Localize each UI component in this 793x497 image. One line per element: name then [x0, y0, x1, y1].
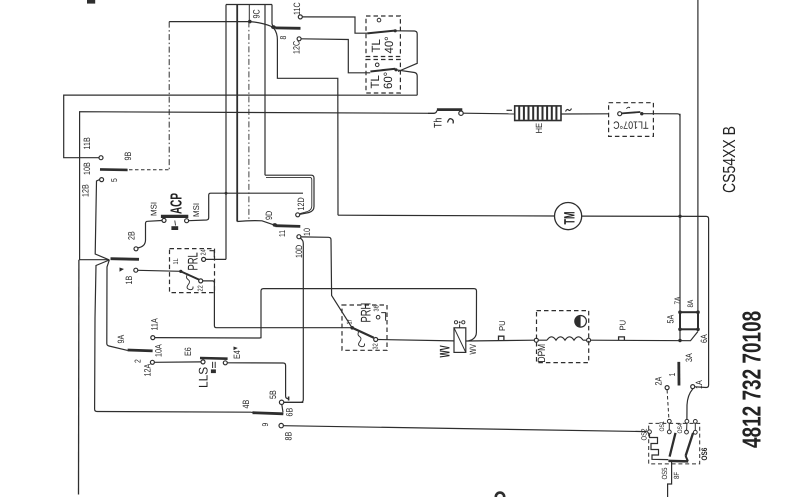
terminal 1B circle: [134, 268, 138, 272]
wire: 22 down and right to PRH net: [203, 281, 352, 328]
terminal 11A: [151, 336, 155, 340]
wire: 24 to neutral riser: [206, 258, 226, 260]
wire: 1A drop to OSS: [687, 389, 693, 419]
wire: TL40 output loops right and down into TL60 contact: [395, 31, 417, 72]
motor TM circle: [555, 203, 582, 230]
svg-text:60°: 60°: [381, 72, 395, 89]
water valve WV: [454, 321, 466, 353]
svg-text:12B: 12B: [81, 184, 91, 197]
switch 9A contact bar (cam 2): [128, 349, 153, 353]
wire: 11A right, up and across to water valve: [155, 289, 477, 341]
switch PRL blade and spring: [179, 270, 199, 290]
svg-text:6B: 6B: [285, 408, 295, 417]
terminal 11C: [298, 15, 302, 19]
svg-text:E4: E4: [232, 350, 242, 359]
terminal 12C: [297, 37, 301, 41]
svg-text:TM: TM: [561, 211, 578, 224]
wire: 12C to thermal cutout TL60: [301, 39, 370, 73]
wire: 9C common from block right edge: [272, 5, 275, 28]
svg-text:12A: 12A: [142, 363, 152, 376]
wire: left line down to bottom edge of sheet: [78, 260, 80, 495]
terminal 10D: [297, 235, 301, 239]
terminal 24: [202, 257, 206, 261]
wire: HE to thermal fuse TL107: [561, 113, 609, 115]
node: junction heater line / motor line: [678, 215, 681, 218]
wire: 8B to off-switch OSS: [283, 426, 646, 432]
mark: dark arc at bottom edge: [496, 493, 504, 497]
wire: 1B circle to PRL blade: [138, 270, 181, 271]
svg-text:3A: 3A: [684, 353, 694, 362]
switch 1B contact bar (cam 4): [111, 257, 140, 260]
svg-text:5: 5: [109, 178, 119, 182]
svg-text:OS6: OS6: [700, 447, 709, 460]
connector PU (pump line): [619, 337, 625, 340]
wire: line continues down from 1B bar to 4B corner: [95, 260, 251, 412]
terminal 12A: [150, 360, 154, 364]
svg-text:WV: WV: [468, 344, 478, 355]
svg-text:WV: WV: [436, 345, 452, 358]
svg-text:10B: 10B: [82, 162, 92, 175]
switch 4B/6B contact bar: [251, 412, 283, 414]
switch 9D contact bar (cam 11): [273, 223, 301, 227]
wire: PRH output to water valve WV: [378, 340, 454, 341]
mark: tilde after HE: [566, 109, 572, 112]
node: junction pump line / suppressor: [678, 339, 681, 342]
wire: LLS E4 right and down to 5B node: [227, 363, 288, 399]
wire: 2B up to ACP left terminal: [138, 221, 162, 248]
svg-text:12C: 12C: [292, 41, 302, 54]
wire: bus from TL output to terminal 11B (left drop): [64, 95, 418, 158]
wire: line branch down to 9A bar: [107, 260, 128, 350]
wire: 9C bar to motor line TM (drops to y78 then right then down): [274, 29, 338, 216]
switch 9C contact bar (cam 8): [271, 25, 300, 29]
wire: OSS output down to sheet edge: [668, 462, 672, 497]
wire: Th to heater HE: [463, 112, 514, 115]
wire: 9D common riser (bold) from terminal block: [236, 5, 238, 222]
wire: cam dash-dot line below 9C junction: [248, 21, 250, 221]
heating element HE (hatched box): [515, 106, 561, 121]
wire: riser from block to 9C junction: [248, 5, 250, 22]
svg-text:OS2: OS2: [639, 428, 648, 440]
svg-text:22: 22: [198, 285, 205, 291]
svg-text:MSI: MSI: [149, 202, 159, 216]
mark: black tab at top edge: [87, 0, 95, 4]
wire: 5B to 10D riser: [284, 401, 304, 403]
svg-text:OS4: OS4: [677, 423, 684, 434]
suppressor box 5A/6A/7A/8A: [678, 310, 700, 331]
wire: 12D upper link from block riser (doubled scan line): [265, 175, 314, 214]
switch 9D blade from riser: [237, 221, 274, 225]
wire: right bus from sheet top to suppressor: [697, 0, 699, 312]
terminal 11B: [99, 156, 103, 160]
wire: 12B down the programme line to 1B bar: [95, 180, 109, 260]
switch PRH blade and spring: [350, 326, 373, 347]
wire: 5B blade to 6B bar end: [282, 404, 283, 412]
thermal cutout TL 60C (dashed box, switch): [366, 60, 400, 94]
resistor meander OS2: [650, 434, 669, 460]
svg-text:36: 36: [374, 305, 381, 311]
svg-text:HE: HE: [534, 123, 544, 134]
svg-text:7A: 7A: [673, 296, 682, 304]
svg-text:OS1: OS1: [659, 421, 666, 432]
wire: 12A to level switch LLS: [154, 361, 201, 363]
wire: 2A dashed drop to OSS: [667, 390, 669, 419]
svg-text:TL107°C: TL107°C: [613, 119, 649, 131]
svg-text:8F: 8F: [672, 472, 681, 479]
wire: neutral riser from terminal block to PRL contact 24: [225, 5, 227, 260]
switch 10B contact bar (cam 5): [100, 168, 128, 171]
switch 3A contact bar (cam 1): [677, 362, 680, 386]
svg-text:PRL: PRL: [184, 252, 200, 270]
terminal 32: [374, 338, 378, 342]
svg-text:9D: 9D: [264, 211, 274, 220]
wire: ACP right terminal up and over to 12D net: [189, 192, 303, 221]
wire: 11C to thermal cutout TL40: [302, 17, 367, 33]
svg-text:11: 11: [277, 230, 287, 237]
svg-text:1B: 1B: [124, 276, 134, 285]
wire: 9C blade from junction to contact bar: [250, 22, 275, 28]
svg-text:TL: TL: [368, 75, 382, 89]
wire: OS terminal stubs: [669, 423, 695, 430]
label 1B flag (cam 4 pointer): [120, 268, 125, 272]
svg-text:9B: 9B: [123, 152, 133, 161]
connector PU (on valve line): [499, 336, 504, 340]
wire: 12D feed riser from terminal block: [264, 5, 266, 176]
wire: heater line vertical to suppressor top: [679, 114, 681, 312]
thermal fuse TL107C (dashed box): [609, 103, 654, 137]
svg-text:9A: 9A: [116, 334, 126, 343]
svg-text:E6: E6: [183, 347, 193, 356]
svg-text:2: 2: [133, 359, 143, 363]
thermal cutout TL 40C (dashed box, switch): [366, 16, 400, 57]
mark: dash above line left of HE: [507, 109, 513, 111]
bracket at 24: [210, 251, 215, 258]
svg-text:4812 732 70108: 4812 732 70108: [737, 311, 767, 448]
svg-text:40°: 40°: [382, 36, 396, 53]
svg-text:CS54XX B: CS54XX B: [719, 126, 739, 193]
wire: 10D down to 5B node: [284, 238, 303, 402]
svg-text:Th: Th: [432, 118, 444, 128]
svg-text:MSI: MSI: [191, 203, 201, 217]
svg-text:5A: 5A: [665, 314, 675, 323]
node: junction tick at 5B: [288, 397, 290, 401]
terminal 8B: [279, 423, 283, 427]
label E4 flag: [234, 347, 238, 351]
svg-text:8A: 8A: [686, 299, 695, 307]
svg-text:1: 1: [667, 373, 677, 377]
svg-text:32: 32: [373, 343, 380, 349]
svg-text:5B: 5B: [268, 390, 278, 399]
node: mains terminal block top edge: [226, 4, 272, 6]
thermostat Th: [428, 110, 463, 124]
svg-text:12D: 12D: [296, 197, 306, 210]
svg-text:9: 9: [260, 423, 270, 427]
node: 9C common junction: [248, 20, 252, 24]
svg-text:9C: 9C: [252, 9, 262, 18]
heating relay PRH (dashed box): [342, 305, 387, 350]
level switch LLS (E6/E4): [200, 358, 228, 373]
svg-text:24: 24: [201, 249, 208, 255]
wire: pump line to suppressor and switch 3A: [591, 331, 698, 340]
svg-text:2B: 2B: [126, 231, 136, 240]
terminal 22: [199, 279, 203, 283]
svg-text:LLS: LLS: [196, 367, 210, 388]
terminal 12B: [100, 178, 104, 182]
terminal 1A: [691, 385, 695, 389]
terminal 36: [376, 315, 380, 319]
terminal OS row (top): [667, 419, 697, 423]
terminal 12D: [296, 213, 300, 217]
svg-text:1r: 1r: [347, 319, 354, 325]
svg-text:11A: 11A: [149, 318, 159, 331]
svg-text:11B: 11B: [82, 137, 92, 149]
wire: motor line right end down to switch 3A / 1A: [582, 216, 709, 387]
wire: TL60 output to bus feeding 11B: [396, 70, 417, 95]
wire: timer cam-link line from 9B to 9C common (dash-dot): [129, 22, 250, 170]
programme switch PRL (dashed box with heater contact 22/24): [170, 249, 215, 293]
terminal 2B: [134, 247, 138, 251]
svg-text:DPM: DPM: [536, 344, 548, 363]
svg-text:10: 10: [302, 228, 312, 236]
wire: bus to thermostat Th and line spine (left drop to 1B): [80, 112, 435, 260]
terminal 2A: [665, 386, 669, 390]
svg-text:8: 8: [278, 36, 288, 40]
mains switch OSS (dashed box): [649, 423, 700, 464]
wire: suppressor lower-left stub: [679, 329, 681, 340]
svg-text:11C: 11C: [292, 2, 302, 15]
svg-text:6A: 6A: [699, 334, 709, 343]
svg-text:1L: 1L: [173, 258, 180, 264]
terminal OS row (bottom): [648, 430, 698, 434]
wire: 10D right then down to PRH blade: [301, 237, 352, 328]
svg-text:ACP: ACP: [168, 193, 185, 214]
svg-text:1A: 1A: [694, 380, 704, 389]
wire: TL107 output right then down: [644, 114, 681, 117]
terminal 5B: [279, 400, 283, 404]
svg-text:PU: PU: [497, 320, 507, 331]
svg-text:8B: 8B: [283, 432, 293, 441]
svg-text:4B: 4B: [241, 400, 251, 409]
wire: motor line from 9C drop to TM: [338, 214, 555, 217]
svg-text:PU: PU: [618, 320, 628, 331]
svg-text:2A: 2A: [654, 376, 664, 385]
svg-text:10A: 10A: [153, 344, 163, 357]
wire: WV output to drain pump: [466, 339, 534, 342]
bracket at 36: [381, 313, 385, 321]
svg-text:PRH: PRH: [357, 303, 373, 323]
svg-text:OS5: OS5: [660, 467, 669, 479]
drain pump motor DPM (dashed box with coil and motor): [534, 311, 590, 363]
switch OSS blades (bold): [668, 433, 693, 462]
interference filter ACP (MSI terminals): [161, 216, 189, 230]
